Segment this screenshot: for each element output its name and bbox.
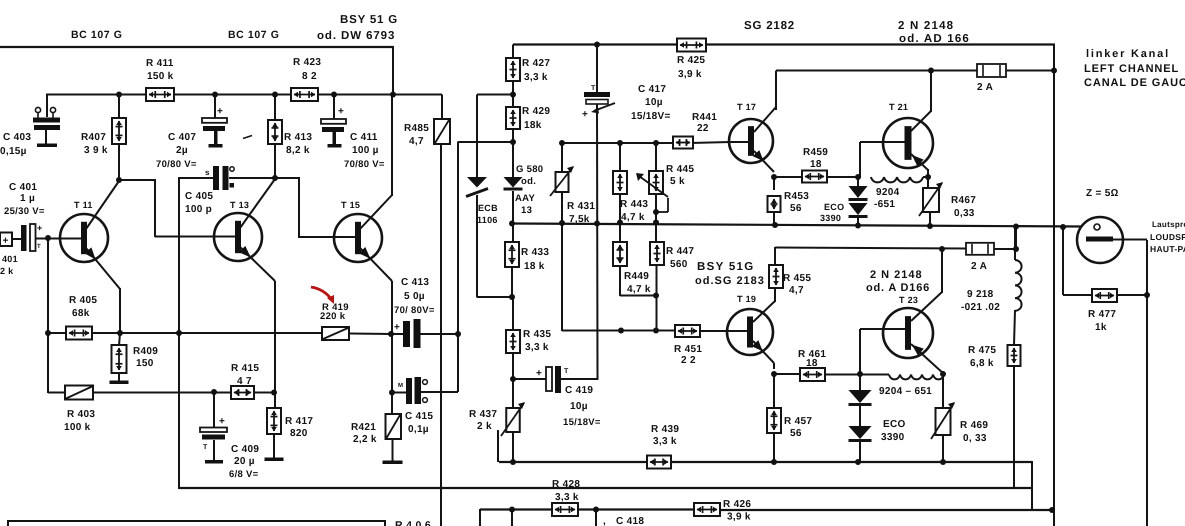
svg-text:CANAL DE GAUCHE: CANAL DE GAUCHE — [1084, 77, 1185, 89]
svg-text:3,3 k: 3,3 k — [653, 436, 677, 447]
svg-text:2 k: 2 k — [477, 421, 492, 432]
svg-text:+: + — [582, 109, 588, 120]
svg-text:R 428: R 428 — [552, 479, 580, 490]
svg-text:R485: R485 — [404, 123, 429, 134]
svg-text:R467: R467 — [951, 195, 976, 206]
svg-text:2,2 k: 2,2 k — [353, 434, 377, 445]
svg-text:LOUDSPE: LOUDSPE — [1150, 232, 1185, 242]
svg-text:18: 18 — [810, 159, 822, 170]
svg-text:R 477: R 477 — [1088, 309, 1116, 320]
svg-text:56: 56 — [790, 428, 802, 439]
svg-text:T: T — [203, 444, 208, 451]
svg-text:R449: R449 — [624, 271, 649, 282]
svg-text:2 2: 2 2 — [681, 355, 696, 366]
svg-text:1106: 1106 — [477, 215, 498, 225]
svg-text:70/80 V=: 70/80 V= — [344, 159, 385, 170]
svg-text:R 426: R 426 — [723, 499, 751, 510]
svg-text:C 418: C 418 — [616, 516, 644, 526]
svg-text:4 7: 4 7 — [237, 376, 252, 387]
svg-text:R459: R459 — [803, 147, 828, 158]
svg-text:10µ: 10µ — [645, 97, 663, 108]
svg-text:9204 – 651: 9204 – 651 — [879, 386, 932, 397]
svg-text:T 23: T 23 — [899, 295, 918, 305]
svg-text:4,7 k: 4,7 k — [627, 284, 651, 295]
svg-text:R 431: R 431 — [567, 201, 595, 212]
svg-text:Z = 5Ω: Z = 5Ω — [1086, 188, 1119, 199]
svg-text:560: 560 — [670, 259, 688, 270]
svg-text:ECB: ECB — [478, 203, 498, 213]
svg-text:C 405: C 405 — [185, 191, 213, 202]
svg-text:-021 .02: -021 .02 — [961, 302, 1000, 313]
svg-text:R 413: R 413 — [284, 132, 312, 143]
svg-text:R 451: R 451 — [674, 344, 702, 355]
svg-text:T 19: T 19 — [737, 294, 756, 304]
svg-text:BC 107 G: BC 107 G — [228, 29, 280, 41]
svg-text:R 445: R 445 — [666, 164, 694, 175]
svg-text:+: + — [3, 236, 9, 247]
svg-text:2 k: 2 k — [0, 266, 14, 276]
svg-text:R409: R409 — [133, 346, 158, 357]
svg-text:150 k: 150 k — [147, 71, 174, 82]
svg-text:2µ: 2µ — [176, 145, 188, 156]
svg-text:C 401: C 401 — [9, 182, 37, 193]
svg-text:25/30 V=: 25/30 V= — [4, 206, 45, 217]
svg-text:4,7: 4,7 — [789, 285, 804, 296]
svg-text:+: + — [219, 416, 225, 427]
svg-text:R 457: R 457 — [784, 416, 812, 427]
svg-text:R441: R441 — [692, 112, 717, 123]
svg-text:od.SG 2183: od.SG 2183 — [695, 275, 765, 287]
svg-text:3390: 3390 — [820, 213, 841, 223]
svg-text:R 429: R 429 — [522, 106, 550, 117]
svg-text:2 A: 2 A — [971, 261, 987, 272]
svg-text:C 417: C 417 — [638, 84, 666, 95]
svg-text:T 13: T 13 — [230, 200, 249, 210]
svg-text:T 17: T 17 — [737, 102, 756, 112]
svg-text:8,2 k: 8,2 k — [286, 145, 310, 156]
svg-text:R 403: R 403 — [67, 409, 95, 420]
svg-text:2 N 2148: 2 N 2148 — [870, 269, 923, 281]
svg-text:9204: 9204 — [876, 187, 900, 198]
svg-text:R 417: R 417 — [285, 416, 313, 427]
svg-text:1k: 1k — [1095, 322, 1107, 333]
svg-text:0, 33: 0, 33 — [963, 433, 987, 444]
svg-text:22: 22 — [697, 123, 709, 134]
svg-text:R 405: R 405 — [69, 295, 97, 306]
svg-text:R 439: R 439 — [651, 424, 679, 435]
svg-text:3,9 k: 3,9 k — [678, 69, 702, 80]
svg-text:BSY 51G: BSY 51G — [697, 261, 754, 273]
svg-text:150: 150 — [136, 358, 154, 369]
svg-text:70/ 80V=: 70/ 80V= — [394, 305, 435, 316]
svg-text:BSY 51 G: BSY 51 G — [340, 14, 398, 26]
svg-text:68k: 68k — [72, 308, 90, 319]
svg-text:18: 18 — [806, 358, 818, 369]
svg-text:-651: -651 — [874, 199, 895, 210]
svg-text:C 415: C 415 — [405, 411, 433, 422]
svg-text:Lautsprec: Lautsprec — [1152, 220, 1185, 229]
svg-text:C 419: C 419 — [565, 385, 593, 396]
svg-text:T 21: T 21 — [889, 102, 908, 112]
svg-text:20 µ: 20 µ — [234, 456, 255, 467]
svg-text:9 218: 9 218 — [967, 289, 994, 300]
svg-text:T: T — [591, 85, 596, 92]
svg-text:18 k: 18 k — [524, 261, 545, 272]
svg-text:15/18V=: 15/18V= — [631, 111, 671, 122]
svg-text:ECO: ECO — [824, 202, 844, 212]
svg-text:3390: 3390 — [881, 432, 905, 443]
svg-text:R453: R453 — [784, 191, 809, 202]
svg-text:s: s — [205, 168, 210, 177]
svg-text:R 427: R 427 — [522, 58, 550, 69]
svg-text:2 N 2148: 2 N 2148 — [898, 20, 954, 32]
svg-text:C 407: C 407 — [168, 132, 196, 143]
svg-text:R 469: R 469 — [960, 420, 988, 431]
svg-text:SG 2182: SG 2182 — [744, 20, 795, 32]
svg-text:+: + — [394, 322, 400, 333]
svg-text:T 15: T 15 — [341, 200, 360, 210]
svg-text:M: M — [398, 382, 403, 389]
svg-text:LEFT CHANNEL: LEFT CHANNEL — [1084, 63, 1179, 75]
svg-text:+: + — [37, 223, 43, 233]
svg-text:3,3 k: 3,3 k — [555, 492, 579, 503]
svg-text:T 11: T 11 — [74, 200, 93, 210]
svg-text:100 k: 100 k — [64, 422, 91, 433]
svg-text:C 411: C 411 — [350, 132, 378, 143]
svg-text:56: 56 — [790, 203, 802, 214]
svg-text:od.: od. — [521, 176, 536, 187]
svg-text:R 447: R 447 — [666, 246, 694, 257]
svg-text:100 µ: 100 µ — [352, 145, 379, 156]
svg-text:C 403: C 403 — [3, 132, 31, 143]
svg-text:R 455: R 455 — [783, 273, 811, 284]
svg-text:+: + — [338, 106, 344, 117]
svg-text:ECO: ECO — [883, 419, 906, 430]
svg-text:C 409: C 409 — [231, 444, 259, 455]
svg-text:C 413: C 413 — [401, 277, 429, 288]
svg-text:3,3 k: 3,3 k — [525, 342, 549, 353]
svg-text:G 580: G 580 — [516, 164, 543, 175]
svg-text:AAY: AAY — [515, 193, 535, 204]
svg-text:18k: 18k — [524, 120, 542, 131]
svg-text:R 443: R 443 — [620, 199, 648, 210]
svg-text:linker Kanal: linker Kanal — [1086, 48, 1170, 60]
svg-text:R 433: R 433 — [521, 247, 549, 258]
svg-text:HAUT-PA: HAUT-PA — [1150, 244, 1185, 254]
svg-text:0,33: 0,33 — [954, 208, 975, 219]
svg-text:70/80 V=: 70/80 V= — [156, 159, 197, 170]
svg-text:6,8 k: 6,8 k — [970, 358, 994, 369]
svg-text:R 435: R 435 — [523, 329, 551, 340]
svg-text:820: 820 — [290, 428, 308, 439]
svg-text:0,1µ: 0,1µ — [408, 424, 429, 435]
svg-text:10µ: 10µ — [570, 401, 588, 412]
svg-text:R 415: R 415 — [231, 363, 259, 374]
svg-text:220 k: 220 k — [320, 311, 346, 322]
svg-text:R 437: R 437 — [469, 409, 497, 420]
svg-text:3,9 k: 3,9 k — [727, 512, 751, 523]
svg-text:R 411: R 411 — [146, 58, 174, 69]
svg-text:R 475: R 475 — [968, 345, 996, 356]
svg-text:13: 13 — [521, 205, 532, 216]
svg-text:BC 107 G: BC 107 G — [71, 29, 123, 41]
svg-text:R421: R421 — [351, 422, 376, 433]
svg-text:2 A: 2 A — [977, 82, 993, 93]
svg-text:401: 401 — [2, 254, 18, 264]
svg-text:7,5k: 7,5k — [569, 214, 590, 225]
svg-text:3,3 k: 3,3 k — [524, 72, 548, 83]
svg-text:4,7 k: 4,7 k — [621, 212, 645, 223]
svg-text:R407: R407 — [81, 132, 106, 143]
svg-text:,: , — [603, 516, 606, 526]
svg-text:100 p: 100 p — [185, 204, 212, 215]
svg-text:8 2: 8 2 — [302, 71, 317, 82]
svg-text:6/8 V=: 6/8 V= — [229, 469, 259, 480]
svg-text:3 9 k: 3 9 k — [84, 145, 108, 156]
svg-text:R 423: R 423 — [293, 57, 321, 68]
svg-text:R 4 0 6: R 4 0 6 — [395, 520, 431, 526]
svg-text:4,7: 4,7 — [409, 136, 424, 147]
svg-text:+: + — [217, 106, 223, 117]
svg-text:5 k: 5 k — [670, 176, 685, 187]
svg-text:R 425: R 425 — [677, 55, 705, 66]
svg-text:5 0µ: 5 0µ — [404, 291, 425, 302]
svg-text:od. AD 166: od. AD 166 — [899, 33, 970, 45]
svg-text:0,15µ: 0,15µ — [0, 146, 27, 157]
svg-text:1 µ: 1 µ — [20, 193, 35, 204]
svg-text:+: + — [536, 368, 542, 379]
svg-text:od. DW 6793: od. DW 6793 — [317, 30, 395, 42]
svg-text:od. A D166: od. A D166 — [866, 282, 930, 294]
svg-text:15/18V=: 15/18V= — [563, 417, 601, 428]
svg-text:T: T — [564, 368, 569, 375]
svg-text:T: T — [37, 243, 41, 250]
